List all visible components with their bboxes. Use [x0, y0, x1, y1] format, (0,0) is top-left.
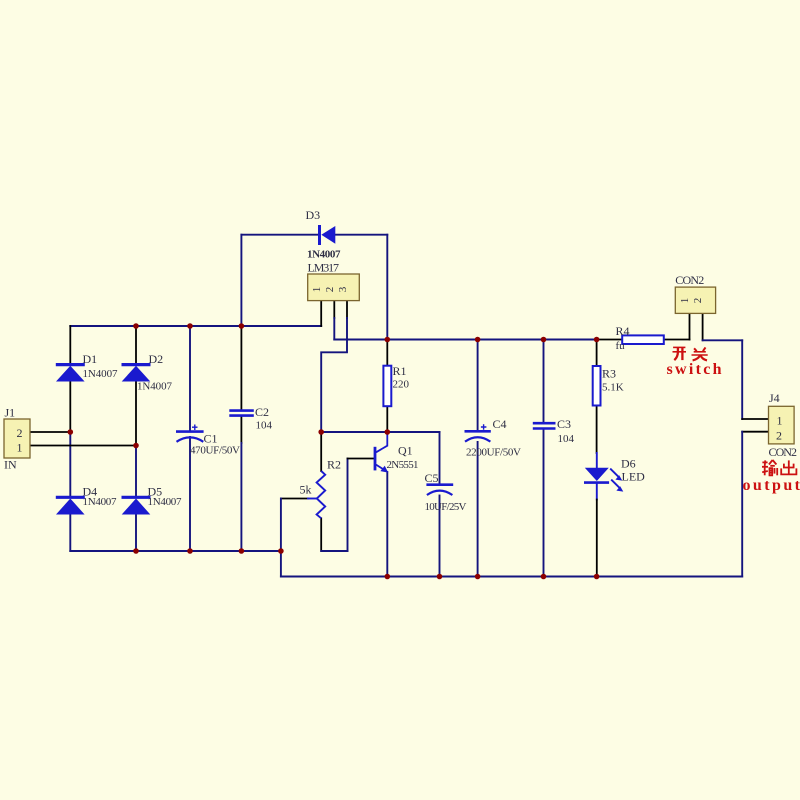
wire D6 bottom — [596, 483, 598, 500]
svg-text:10UF/25V: 10UF/25V — [425, 501, 467, 513]
node low bus / C1 — [187, 548, 193, 554]
svg-text:2: 2 — [692, 298, 704, 304]
diode D3 — [320, 225, 336, 245]
wire bridge vertical x=136 — [135, 326, 137, 364]
LED D6 — [584, 468, 623, 492]
wire R2 bottom to base vertical — [321, 550, 347, 552]
IC U1 LM317 box — [308, 274, 360, 301]
svg-text:D6: D6 — [621, 457, 636, 471]
wire D3 loop right vertical — [386, 235, 388, 340]
wire left vertical x=70 — [69, 326, 71, 364]
svg-text:CON2: CON2 — [675, 273, 704, 287]
capacitor C5 — [426, 485, 453, 495]
label Chinese shu (transport) — [762, 460, 777, 475]
wire LM317 pin2 stub — [333, 301, 335, 318]
label Chinese kai (open) — [673, 347, 687, 360]
wire x=281 vertical between buses — [280, 551, 282, 577]
svg-text:R4: R4 — [616, 324, 630, 338]
node mid rail / C4 — [475, 337, 481, 343]
wire bottom bus y=576.5 — [281, 576, 742, 578]
wire J4 pin2 stub — [742, 431, 768, 433]
svg-text:fu: fu — [616, 340, 626, 352]
svg-text:C3: C3 — [557, 417, 571, 431]
potentiometer R2 zigzag — [317, 471, 326, 518]
node low bus / C2 — [239, 548, 245, 554]
resistor R4 — [622, 335, 664, 344]
svg-text:104: 104 — [256, 420, 273, 432]
capacitor C2 — [229, 411, 254, 416]
svg-text:J1: J1 — [5, 406, 16, 420]
svg-text:D1: D1 — [83, 352, 98, 366]
svg-text:1: 1 — [17, 441, 23, 455]
node top bus / D2 — [133, 323, 139, 329]
label Chinese chu (out) — [781, 460, 796, 474]
node J1 pin2 / bridge left — [68, 429, 74, 435]
svg-text:104: 104 — [558, 433, 575, 445]
wire mid rail y=339.5 — [334, 339, 596, 341]
wire wiper vertical to low bus — [280, 499, 282, 552]
svg-text:LM317: LM317 — [308, 261, 340, 275]
svg-text:1: 1 — [679, 298, 691, 304]
svg-text:2N5551: 2N5551 — [387, 459, 419, 471]
svg-text:2: 2 — [17, 426, 23, 440]
node J1 pin1 / bridge right — [133, 443, 139, 449]
diode D4 — [56, 497, 85, 514]
node mid rail / R1 — [385, 337, 391, 343]
wire Q1 emitter vertical — [386, 472, 388, 577]
capacitor C1 — [176, 425, 204, 442]
wire CON2 pin2 stub — [702, 313, 704, 340]
svg-text:CON2: CON2 — [769, 445, 798, 459]
wire R4 left stub — [597, 339, 623, 341]
label Chinese guan (close) — [692, 347, 708, 360]
svg-text:C5: C5 — [425, 471, 439, 485]
svg-text:D3: D3 — [306, 208, 321, 222]
svg-text:R2: R2 — [327, 458, 341, 472]
svg-text:J4: J4 — [769, 391, 780, 405]
svg-text:3: 3 — [337, 286, 349, 292]
svg-text:1N4007: 1N4007 — [148, 496, 183, 508]
wire C4 vertical — [477, 340, 479, 432]
wire right vertical lower — [741, 432, 743, 577]
svg-text:5.1K: 5.1K — [602, 382, 624, 394]
wire R3 to D6 — [596, 406, 598, 454]
wire right vertical upper to J4 pin1 — [741, 340, 743, 419]
junction dots — [68, 323, 600, 579]
wire D3 loop top left segment — [241, 234, 318, 236]
wire C1 vertical — [189, 326, 191, 431]
wire R2 pot top stub — [320, 432, 322, 471]
wire CON2 pin1 stub — [689, 313, 691, 339]
wire C5 bottom — [439, 496, 441, 577]
svg-text:5k: 5k — [300, 483, 312, 497]
wire J1 pin2 stub — [30, 431, 70, 433]
wire low bus y=551 — [70, 550, 281, 552]
transistor Q1 — [375, 432, 388, 473]
svg-text:1N4007: 1N4007 — [83, 368, 119, 380]
wire C2 vertical — [240, 326, 242, 410]
wire R2 pot bottom stub — [320, 518, 322, 551]
svg-text:IN: IN — [4, 458, 17, 472]
resistor R1 — [383, 366, 391, 407]
resistor R3 — [593, 366, 601, 406]
svg-text:Q1: Q1 — [398, 444, 413, 458]
svg-text:220: 220 — [393, 379, 410, 391]
wire D3 loop left vertical — [240, 235, 242, 326]
wire C3 vertical — [543, 340, 545, 423]
wire R1 bottom stub — [386, 406, 388, 432]
svg-text:D2: D2 — [149, 352, 164, 366]
wire J1 pin1 stub — [30, 445, 136, 447]
wire CON2 pin2 to right vertical — [703, 339, 743, 341]
node bottom bus / C4 — [475, 574, 481, 580]
node mid rail / R3 R4 — [594, 337, 600, 343]
svg-text:C2: C2 — [255, 405, 269, 419]
capacitor C4 — [465, 424, 491, 441]
svg-text:R3: R3 — [602, 367, 616, 381]
connector J4 box — [769, 406, 795, 444]
svg-text:C4: C4 — [493, 417, 507, 431]
node bottom bus / C3 — [541, 574, 547, 580]
diode D5 — [122, 497, 151, 514]
svg-text:1N4007: 1N4007 — [307, 249, 341, 261]
wire R4 right stub — [663, 339, 689, 341]
wire top bus y=326 — [70, 325, 321, 327]
svg-text:2: 2 — [324, 287, 336, 293]
svg-text:1N4007: 1N4007 — [83, 496, 118, 508]
wire Q1 base — [348, 458, 374, 460]
wire R3 top stub — [596, 340, 598, 367]
wire D3 loop top right segment — [335, 234, 387, 236]
wire y=432 mid line — [321, 431, 439, 433]
connector CON2 box (switch) — [675, 287, 715, 313]
svg-text:2200UF/50V: 2200UF/50V — [466, 447, 521, 459]
capacitor C3 — [533, 423, 556, 428]
node bottom bus / D6 — [594, 574, 600, 580]
node top bus / C1 — [187, 323, 193, 329]
svg-text:1: 1 — [777, 414, 783, 428]
wire C5 drop — [439, 432, 441, 484]
svg-text:2: 2 — [776, 429, 782, 443]
svg-text:1: 1 — [311, 287, 323, 293]
svg-text:R1: R1 — [393, 364, 407, 378]
diode D2 — [122, 365, 151, 382]
diode D1 — [56, 365, 85, 382]
node low bus / D5 — [133, 548, 139, 554]
node bottom bus / Q1 emitter — [385, 574, 391, 580]
connector J1 box — [4, 419, 30, 458]
svg-text:1N4007: 1N4007 — [137, 381, 173, 393]
node adj line / pot — [318, 429, 324, 435]
wire LM317 pin3 stub and route — [346, 301, 348, 318]
wire LM317 pin1 stub — [320, 301, 322, 326]
node low bus / wiper — [278, 548, 284, 554]
svg-text:470UF/50V: 470UF/50V — [190, 445, 240, 457]
wire J4 pin1 stub — [742, 418, 768, 420]
node adj line / R1 bottom — [385, 429, 391, 435]
node top bus / D3 loop — [239, 323, 245, 329]
node bottom bus / C5 — [437, 574, 443, 580]
svg-text:C1: C1 — [204, 432, 218, 446]
wire R1 top stub — [386, 340, 388, 366]
wire R2 wiper horizontal — [281, 498, 308, 500]
node mid rail / C3 — [541, 337, 547, 343]
svg-text:LED: LED — [622, 470, 646, 484]
